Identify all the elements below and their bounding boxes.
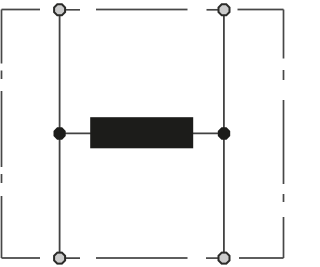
wire: top boundary dash 4 (stub left of top-right port) [207, 9, 222, 11]
node B (right junction dot) [218, 128, 229, 139]
wire: bottom boundary dash 4 (stub left of bottom-right port) [206, 257, 221, 259]
wire: right boundary dash 2 [283, 70, 285, 80]
wire: right boundary dash 5 [283, 217, 285, 258]
terminal port P1 (top-left octagon) [54, 4, 65, 15]
wire: bottom boundary dash 1 [2, 257, 41, 259]
terminal port P4 (bottom-right octagon) [219, 253, 230, 264]
wire: bottom boundary dash 2 (stub right of bottom-left port) [62, 257, 80, 259]
wire: left boundary dash 3 [1, 91, 3, 167]
resistor R1 body [90, 117, 193, 148]
wire: left boundary dash 2 [1, 71, 3, 80]
wire: top boundary dash 2 (stub right of top-left port) [62, 9, 80, 11]
wire: bottom boundary dash 5 [239, 257, 284, 259]
wire: right boundary dash 4 [283, 194, 285, 202]
wire: left boundary dash 4 [1, 174, 3, 183]
wire: left boundary dash 5 [1, 196, 3, 258]
terminal port P3 (bottom-left octagon) [54, 253, 65, 264]
wire: left lead to resistor [60, 132, 91, 134]
wire: left boundary dash 1 [1, 10, 3, 64]
terminal port P2 (top-right octagon) [219, 4, 230, 15]
wire: right boundary dash 3 [283, 100, 285, 184]
wire: right boundary dash 1 [283, 10, 285, 59]
wire: top boundary dash 5 [238, 9, 284, 11]
wire: right vertical conductor [223, 12, 225, 256]
wire: top boundary dash 1 [2, 9, 41, 11]
wire: right lead from resistor [192, 132, 224, 134]
wire: left vertical conductor [59, 12, 61, 256]
wire: bottom boundary dash 3 [96, 257, 188, 259]
node A (left junction dot) [54, 128, 65, 139]
wire: top boundary dash 3 [96, 9, 188, 11]
